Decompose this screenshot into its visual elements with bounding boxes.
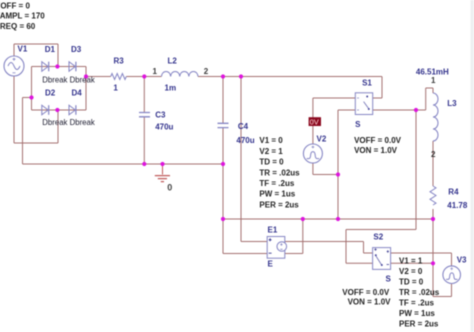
- svg-text:TD = 0: TD = 0: [399, 278, 424, 287]
- svg-text:S: S: [355, 120, 361, 129]
- svg-text:S1: S1: [362, 79, 372, 88]
- svg-text:D4: D4: [72, 89, 83, 98]
- svg-text:TD = 0: TD = 0: [259, 158, 284, 167]
- svg-text:R3: R3: [114, 57, 125, 66]
- svg-text:TR = .02us: TR = .02us: [259, 168, 300, 177]
- svg-text:0: 0: [167, 182, 172, 192]
- svg-text:470u: 470u: [236, 136, 254, 145]
- svg-text:1: 1: [431, 76, 436, 85]
- svg-text:Dbreak Dbreak: Dbreak Dbreak: [42, 118, 95, 127]
- svg-text:V2 = 0: V2 = 0: [399, 267, 423, 276]
- svg-text:VOFF = 0: VOFF = 0: [0, 1, 30, 10]
- svg-text:470u: 470u: [155, 123, 173, 132]
- svg-text:41.78: 41.78: [447, 201, 468, 210]
- svg-text:V1: V1: [18, 45, 28, 54]
- svg-text:1m: 1m: [165, 84, 177, 93]
- svg-text:E: E: [268, 260, 274, 269]
- svg-text:Dbreak Dbreak: Dbreak Dbreak: [42, 76, 95, 85]
- svg-text:R4: R4: [448, 187, 459, 196]
- svg-text:0V: 0V: [310, 117, 319, 126]
- svg-text:D3: D3: [71, 45, 82, 54]
- svg-text:TF = .2us: TF = .2us: [259, 179, 294, 188]
- svg-text:E1: E1: [268, 226, 278, 235]
- svg-text:V3: V3: [457, 255, 467, 264]
- svg-text:VON = 1.0V: VON = 1.0V: [354, 146, 398, 155]
- svg-text:C4: C4: [238, 122, 249, 131]
- svg-text:V2: V2: [317, 134, 327, 143]
- svg-text:D1: D1: [45, 45, 56, 54]
- svg-text:PER = 2us: PER = 2us: [399, 320, 439, 329]
- svg-text:TF = .2us: TF = .2us: [399, 299, 434, 308]
- svg-text:V2 = 1: V2 = 1: [259, 147, 283, 156]
- svg-text:VOFF = 0.0V: VOFF = 0.0V: [342, 288, 390, 297]
- svg-text:TR = .02us: TR = .02us: [399, 288, 440, 297]
- svg-text:PW = 1us: PW = 1us: [399, 309, 435, 318]
- svg-text:C3: C3: [155, 111, 166, 120]
- svg-text:L3: L3: [447, 99, 457, 108]
- svg-text:FREQ = 60: FREQ = 60: [0, 22, 36, 31]
- svg-text:VAMPL = 170: VAMPL = 170: [0, 12, 45, 21]
- svg-text:S2: S2: [373, 233, 383, 242]
- svg-text:1: 1: [153, 67, 158, 76]
- svg-text:V1 = 0: V1 = 0: [259, 136, 283, 145]
- svg-text:VON = 1.0V: VON = 1.0V: [348, 298, 392, 307]
- svg-text:PW = 1us: PW = 1us: [259, 190, 295, 199]
- svg-text:S: S: [386, 275, 392, 284]
- svg-text:2: 2: [204, 67, 209, 76]
- svg-text:PER = 2us: PER = 2us: [259, 200, 299, 209]
- svg-text:46.51mH: 46.51mH: [416, 67, 449, 76]
- svg-text:1: 1: [113, 84, 118, 93]
- svg-text:2: 2: [431, 150, 436, 159]
- svg-text:V1 = 1: V1 = 1: [399, 257, 423, 266]
- svg-text:VOFF = 0.0V: VOFF = 0.0V: [354, 136, 402, 145]
- svg-text:D2: D2: [45, 89, 56, 98]
- svg-text:L2: L2: [168, 57, 178, 66]
